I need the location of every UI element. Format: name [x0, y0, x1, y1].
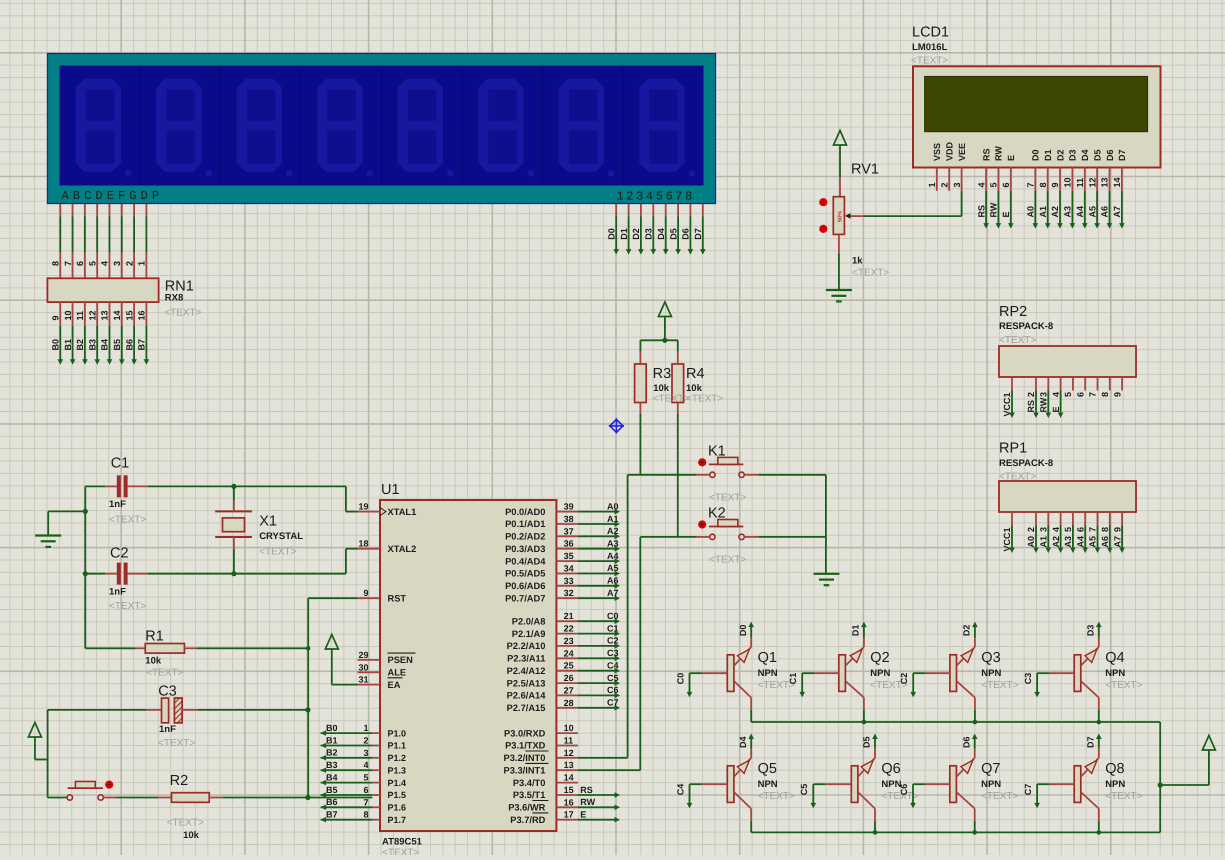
svg-text:50%: 50%	[838, 211, 844, 222]
svg-text:P3.2/INT0: P3.2/INT0	[504, 753, 546, 763]
svg-text:3: 3	[363, 748, 368, 758]
svg-text:6: 6	[363, 785, 368, 795]
svg-text:D0: D0	[606, 228, 616, 240]
svg-text:A6: A6	[607, 576, 619, 586]
svg-text:P2.4/A12: P2.4/A12	[507, 666, 546, 676]
svg-text:D1: D1	[851, 625, 861, 637]
svg-text:9: 9	[1112, 527, 1122, 532]
svg-text:4: 4	[363, 760, 368, 770]
svg-text:P0.4/AD4: P0.4/AD4	[505, 556, 546, 566]
svg-text:2: 2	[939, 182, 949, 187]
svg-text:3: 3	[952, 182, 962, 187]
svg-text:D7: D7	[1086, 736, 1096, 748]
svg-text:A3: A3	[1063, 536, 1073, 548]
svg-text:19: 19	[358, 502, 368, 512]
svg-text:P3.0/RXD: P3.0/RXD	[504, 728, 546, 738]
svg-text:6: 6	[1075, 392, 1085, 397]
svg-text:Q2: Q2	[870, 650, 889, 666]
svg-text:9: 9	[363, 588, 368, 598]
svg-text:10k: 10k	[145, 656, 162, 667]
svg-text:29: 29	[358, 650, 368, 660]
svg-text:RS: RS	[981, 148, 991, 161]
svg-text:P3.1/TXD: P3.1/TXD	[505, 741, 546, 751]
svg-text:9: 9	[51, 315, 61, 320]
svg-text:D7: D7	[1117, 149, 1127, 161]
svg-text:LCD1: LCD1	[912, 25, 949, 41]
svg-text:<TEXT>: <TEXT>	[1105, 791, 1142, 802]
svg-text:10: 10	[1063, 177, 1073, 187]
svg-text:<TEXT>: <TEXT>	[709, 555, 746, 566]
svg-text:B2: B2	[75, 339, 85, 351]
svg-text:16: 16	[137, 310, 147, 320]
svg-text:<TEXT>: <TEXT>	[382, 848, 419, 856]
svg-text:<TEXT>: <TEXT>	[164, 308, 201, 319]
svg-text:1nF: 1nF	[109, 499, 126, 510]
svg-text:RESPACK-8: RESPACK-8	[999, 458, 1053, 469]
svg-text:E: E	[580, 810, 586, 820]
svg-text:P1.3: P1.3	[388, 765, 407, 775]
svg-text:A6: A6	[1100, 206, 1110, 218]
svg-text:Q4: Q4	[1105, 650, 1124, 666]
svg-text:<TEXT>: <TEXT>	[981, 791, 1018, 802]
svg-text:EA: EA	[388, 680, 401, 690]
svg-text:U1: U1	[381, 482, 400, 498]
svg-text:P1.2: P1.2	[388, 753, 407, 763]
svg-text:37: 37	[564, 526, 574, 536]
svg-text:7: 7	[363, 797, 368, 807]
svg-text:B6: B6	[124, 339, 134, 351]
svg-text:14: 14	[1112, 177, 1122, 187]
svg-text:13: 13	[564, 760, 574, 770]
svg-text:11: 11	[564, 736, 574, 746]
svg-text:B3: B3	[87, 339, 97, 351]
svg-text:<TEXT>: <TEXT>	[911, 56, 948, 67]
svg-text:5: 5	[87, 261, 97, 266]
svg-text:D5: D5	[668, 228, 678, 240]
svg-text:CRYSTAL: CRYSTAL	[259, 531, 303, 542]
svg-text:34: 34	[564, 564, 574, 574]
svg-text:A5: A5	[1088, 536, 1098, 548]
svg-text:E: E	[1051, 406, 1061, 412]
svg-text:R2: R2	[170, 773, 189, 789]
svg-text:18: 18	[358, 539, 368, 549]
svg-text:C2: C2	[899, 673, 909, 685]
svg-text:RS: RS	[976, 205, 986, 218]
svg-text:P2.7/A15: P2.7/A15	[507, 703, 546, 713]
svg-text:D0: D0	[1031, 149, 1041, 161]
svg-text:9: 9	[1050, 182, 1060, 187]
svg-text:A7: A7	[1112, 206, 1122, 218]
svg-text:<TEXT>: <TEXT>	[259, 547, 296, 558]
svg-text:ALE: ALE	[388, 668, 407, 678]
svg-text:A0: A0	[607, 501, 619, 511]
svg-text:10: 10	[564, 723, 574, 733]
svg-text:RW: RW	[1039, 397, 1049, 412]
svg-text:D6: D6	[681, 228, 691, 240]
svg-text:4: 4	[1051, 392, 1061, 397]
svg-text:P1.5: P1.5	[388, 790, 407, 800]
svg-text:<TEXT>: <TEXT>	[158, 738, 195, 749]
svg-text:D6: D6	[961, 736, 971, 748]
svg-text:8: 8	[363, 810, 368, 820]
svg-text:<TEXT>: <TEXT>	[852, 268, 889, 279]
svg-text:NPN: NPN	[981, 779, 1001, 790]
svg-text:D5: D5	[862, 736, 872, 748]
svg-text:9: 9	[1112, 392, 1122, 397]
svg-text:6: 6	[1001, 182, 1011, 187]
svg-text:NPN: NPN	[758, 668, 778, 679]
svg-text:X1: X1	[259, 514, 277, 530]
svg-text:C5: C5	[607, 673, 619, 683]
svg-text:A4: A4	[607, 551, 619, 561]
svg-text:P0.5/AD5: P0.5/AD5	[505, 569, 545, 579]
svg-text:B4: B4	[326, 772, 338, 782]
svg-text:P0.6/AD6: P0.6/AD6	[505, 581, 545, 591]
svg-text:12: 12	[87, 310, 97, 320]
svg-text:RST: RST	[388, 593, 407, 603]
svg-text:P1.1: P1.1	[388, 741, 407, 751]
svg-text:D1: D1	[619, 228, 629, 240]
svg-text:7: 7	[1026, 182, 1036, 187]
svg-text:A2: A2	[607, 526, 619, 536]
svg-text:P2.1/A9: P2.1/A9	[512, 629, 546, 639]
svg-text:23: 23	[564, 636, 574, 646]
svg-text:8: 8	[1100, 392, 1110, 397]
svg-text:<TEXT>: <TEXT>	[109, 601, 146, 612]
svg-text:P3.5/T1: P3.5/T1	[513, 790, 546, 800]
svg-text:VEE: VEE	[957, 143, 967, 161]
svg-text:8: 8	[1038, 182, 1048, 187]
svg-text:5: 5	[1063, 392, 1073, 397]
svg-text:A7: A7	[607, 588, 619, 598]
svg-text:C1: C1	[607, 623, 619, 633]
svg-text:A0: A0	[1026, 206, 1036, 218]
svg-text:8: 8	[51, 261, 61, 266]
svg-text:5: 5	[363, 773, 368, 783]
svg-text:A4: A4	[1075, 536, 1085, 548]
svg-text:RV1: RV1	[851, 161, 879, 177]
svg-text:XTAL1: XTAL1	[388, 507, 417, 517]
svg-text:RS: RS	[1026, 400, 1036, 413]
svg-text:D2: D2	[1055, 149, 1065, 161]
svg-text:2: 2	[1026, 392, 1036, 397]
svg-text:17: 17	[564, 810, 574, 820]
svg-text:D3: D3	[1068, 149, 1078, 161]
svg-text:14: 14	[112, 310, 122, 320]
svg-text:5: 5	[1063, 527, 1073, 532]
svg-text:NPN: NPN	[1105, 779, 1125, 790]
svg-text:C3: C3	[158, 684, 177, 700]
svg-text:C4: C4	[607, 661, 619, 671]
svg-text:NPN: NPN	[981, 668, 1001, 679]
svg-text:Q7: Q7	[981, 761, 1000, 777]
svg-text:1: 1	[363, 723, 368, 733]
svg-text:RP1: RP1	[999, 441, 1027, 457]
svg-text:33: 33	[564, 576, 574, 586]
svg-text:<TEXT>: <TEXT>	[109, 515, 146, 526]
svg-text:<TEXT>: <TEXT>	[758, 791, 795, 802]
svg-text:<TEXT>: <TEXT>	[167, 818, 204, 829]
svg-text:3: 3	[1039, 392, 1049, 397]
svg-text:RW: RW	[989, 202, 999, 217]
svg-text:28: 28	[564, 698, 574, 708]
svg-text:C1: C1	[111, 456, 130, 472]
svg-text:RS: RS	[580, 785, 593, 795]
svg-text:Q6: Q6	[881, 761, 900, 777]
svg-text:12: 12	[1087, 177, 1097, 187]
svg-text:P1.4: P1.4	[388, 778, 407, 788]
svg-text:B4: B4	[100, 339, 110, 351]
svg-text:B6: B6	[326, 797, 338, 807]
svg-text:NPN: NPN	[1105, 668, 1125, 679]
svg-text:P1.0: P1.0	[388, 728, 407, 738]
svg-text:B0: B0	[326, 723, 338, 733]
svg-text:C7: C7	[607, 698, 619, 708]
svg-text:<TEXT>: <TEXT>	[981, 680, 1018, 691]
svg-text:4: 4	[100, 261, 110, 266]
svg-text:RP2: RP2	[999, 304, 1027, 320]
svg-text:PSEN: PSEN	[388, 655, 414, 665]
svg-text:36: 36	[564, 539, 574, 549]
svg-text:12: 12	[564, 748, 574, 758]
svg-text:D7: D7	[693, 228, 703, 240]
svg-text:ABCDEFG: ABCDEFG	[62, 189, 141, 203]
svg-text:RX8: RX8	[165, 293, 183, 304]
svg-text:B0: B0	[51, 339, 61, 351]
svg-text:13: 13	[1100, 177, 1110, 187]
svg-text:24: 24	[564, 648, 574, 658]
svg-text:R4: R4	[686, 366, 705, 382]
svg-text:15: 15	[564, 785, 574, 795]
svg-text:1nF: 1nF	[109, 587, 126, 598]
svg-text:A5: A5	[1087, 206, 1097, 218]
svg-text:P3.3/INT1: P3.3/INT1	[504, 765, 546, 775]
svg-text:A0: A0	[1026, 536, 1036, 548]
svg-text:10k: 10k	[183, 830, 200, 841]
svg-text:2: 2	[363, 736, 368, 746]
svg-text:P3.4/T0: P3.4/T0	[513, 778, 546, 788]
svg-text:RW: RW	[580, 797, 595, 807]
svg-text:D5: D5	[1092, 149, 1102, 161]
svg-text:39: 39	[564, 502, 574, 512]
svg-text:7: 7	[1088, 527, 1098, 532]
svg-text:35: 35	[564, 551, 574, 561]
svg-text:30: 30	[358, 662, 368, 672]
svg-text:12345678: 12345678	[617, 189, 695, 203]
svg-text:D4: D4	[1080, 149, 1090, 161]
svg-text:A1: A1	[1038, 206, 1048, 218]
svg-text:C5: C5	[799, 784, 809, 796]
svg-text:14: 14	[564, 773, 574, 783]
svg-text:5: 5	[989, 182, 999, 187]
svg-text:13: 13	[100, 310, 110, 320]
svg-text:<TEXT>: <TEXT>	[709, 493, 746, 504]
svg-text:P0.7/AD7: P0.7/AD7	[505, 593, 545, 603]
svg-text:1: 1	[137, 261, 147, 266]
svg-text:21: 21	[564, 611, 574, 621]
svg-text:D3: D3	[1086, 625, 1096, 637]
svg-text:A7: A7	[1112, 536, 1122, 548]
svg-text:15: 15	[124, 310, 134, 320]
svg-text:C2: C2	[110, 546, 129, 562]
svg-text:D4: D4	[738, 736, 748, 748]
svg-text:A5: A5	[607, 563, 619, 573]
svg-text:P2.5/A13: P2.5/A13	[507, 678, 546, 688]
svg-text:B2: B2	[326, 748, 338, 758]
svg-text:31: 31	[358, 675, 368, 685]
svg-text:C0: C0	[607, 611, 619, 621]
svg-text:2: 2	[1026, 527, 1036, 532]
svg-text:2: 2	[124, 261, 134, 266]
svg-text:1k: 1k	[852, 255, 863, 266]
svg-text:E: E	[1001, 211, 1011, 217]
svg-text:32: 32	[564, 588, 574, 598]
svg-text:A4: A4	[1075, 206, 1085, 218]
svg-text:<TEXT>: <TEXT>	[146, 668, 183, 679]
svg-text:RW: RW	[994, 146, 1004, 161]
svg-text:C3: C3	[607, 648, 619, 658]
svg-text:C1: C1	[788, 673, 798, 685]
svg-text:D3: D3	[644, 228, 654, 240]
svg-text:P2.3/A11: P2.3/A11	[507, 654, 545, 664]
svg-text:P1.6: P1.6	[388, 803, 407, 813]
svg-text:P3.6/WR: P3.6/WR	[508, 803, 545, 813]
svg-text:R1: R1	[145, 629, 164, 645]
svg-text:A3: A3	[607, 539, 619, 549]
svg-text:A6: A6	[1100, 536, 1110, 548]
svg-text:D0: D0	[738, 625, 748, 637]
svg-text:B1: B1	[63, 339, 73, 351]
svg-text:C6: C6	[607, 685, 619, 695]
svg-text:A1: A1	[1039, 536, 1049, 548]
svg-text:Q3: Q3	[981, 650, 1000, 666]
svg-text:R3: R3	[653, 366, 672, 382]
svg-text:RESPACK-8: RESPACK-8	[999, 321, 1053, 332]
svg-text:8: 8	[1100, 527, 1110, 532]
svg-text:11: 11	[75, 311, 85, 321]
svg-text:B3: B3	[326, 760, 338, 770]
svg-text:4: 4	[976, 182, 986, 187]
svg-text:Q5: Q5	[758, 761, 777, 777]
svg-text:27: 27	[564, 685, 574, 695]
svg-text:B7: B7	[326, 810, 338, 820]
svg-text:D2: D2	[962, 625, 972, 637]
svg-text:A3: A3	[1063, 206, 1073, 218]
svg-text:B7: B7	[137, 339, 147, 351]
svg-text:3: 3	[1039, 527, 1049, 532]
svg-text:22: 22	[564, 624, 574, 634]
svg-text:C2: C2	[607, 636, 619, 646]
svg-text:11: 11	[1075, 178, 1085, 188]
svg-text:AT89C51: AT89C51	[382, 837, 423, 848]
svg-text:6: 6	[75, 261, 85, 266]
svg-text:B1: B1	[326, 735, 338, 745]
svg-text:C4: C4	[675, 784, 685, 796]
svg-text:C6: C6	[899, 784, 909, 796]
svg-text:16: 16	[564, 797, 574, 807]
svg-text:DP: DP	[141, 189, 164, 203]
svg-text:A2: A2	[1051, 536, 1061, 548]
svg-text:P0.0/AD0: P0.0/AD0	[505, 507, 545, 517]
svg-text:D1: D1	[1043, 149, 1053, 161]
svg-text:<TEXT>: <TEXT>	[999, 335, 1036, 346]
svg-text:P0.3/AD3: P0.3/AD3	[505, 544, 545, 554]
svg-text:B5: B5	[112, 339, 122, 351]
svg-text:25: 25	[564, 661, 574, 671]
svg-text:NPN: NPN	[758, 779, 778, 790]
svg-text:1: 1	[927, 182, 937, 187]
svg-text:P1.7: P1.7	[388, 815, 407, 825]
svg-text:P2.0/A8: P2.0/A8	[512, 616, 546, 626]
svg-text:C0: C0	[675, 673, 685, 685]
svg-text:A2: A2	[1050, 206, 1060, 218]
svg-text:<TEXT>: <TEXT>	[686, 394, 723, 405]
svg-text:Q8: Q8	[1105, 761, 1124, 777]
svg-text:7: 7	[1088, 392, 1098, 397]
svg-text:38: 38	[564, 514, 574, 524]
svg-text:10: 10	[63, 310, 73, 320]
svg-text:<TEXT>: <TEXT>	[1105, 680, 1142, 691]
svg-text:C3: C3	[1023, 673, 1033, 685]
svg-text:D4: D4	[656, 228, 666, 240]
svg-text:3: 3	[112, 261, 122, 266]
svg-text:E: E	[1006, 155, 1016, 161]
svg-text:A1: A1	[607, 514, 619, 524]
svg-text:4: 4	[1051, 527, 1061, 532]
svg-text:D2: D2	[631, 228, 641, 240]
svg-text:P2.6/A14: P2.6/A14	[507, 691, 547, 701]
svg-text:P3.7/RD: P3.7/RD	[510, 815, 545, 825]
svg-text:NPN: NPN	[870, 668, 890, 679]
svg-text:Q1: Q1	[758, 650, 777, 666]
svg-text:C7: C7	[1023, 784, 1033, 796]
svg-text:D6: D6	[1105, 149, 1115, 161]
svg-text:XTAL2: XTAL2	[388, 544, 417, 554]
svg-text:P0.2/AD2: P0.2/AD2	[505, 532, 545, 542]
svg-text:6: 6	[1075, 527, 1085, 532]
svg-text:P0.1/AD1: P0.1/AD1	[505, 519, 545, 529]
svg-text:VSS: VSS	[932, 143, 942, 161]
svg-text:26: 26	[564, 673, 574, 683]
svg-text:<TEXT>: <TEXT>	[653, 394, 690, 405]
svg-text:VDD: VDD	[945, 141, 955, 161]
svg-text:10k: 10k	[686, 383, 703, 394]
svg-text:1nF: 1nF	[159, 724, 176, 735]
svg-text:10k: 10k	[653, 383, 670, 394]
svg-text:7: 7	[63, 261, 73, 266]
svg-text:B5: B5	[326, 785, 338, 795]
svg-text:LM016L: LM016L	[912, 42, 948, 53]
svg-text:P2.2/A10: P2.2/A10	[507, 641, 546, 651]
